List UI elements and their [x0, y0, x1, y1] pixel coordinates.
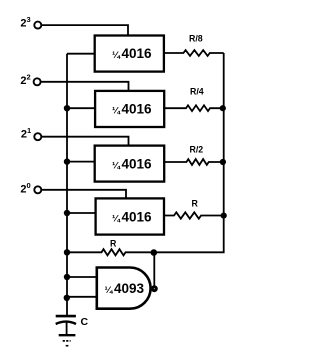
- node junction dot feedback to output: [151, 249, 158, 256]
- node junction dot R/4 to right bus: [220, 105, 226, 111]
- switch U2 (1/4 4016): [95, 91, 164, 127]
- node junction dot gate input 2: [64, 295, 70, 301]
- wire bus stub to U3 left: [67, 161, 95, 163]
- resistor R (stage 4): [164, 212, 224, 218]
- node junction dot R to right bus: [221, 213, 227, 219]
- ground: [59, 334, 76, 336]
- wire gate input 1: [67, 276, 96, 278]
- svg-text:R: R: [110, 239, 117, 249]
- node 2^1 input terminal: [34, 133, 41, 140]
- svg-text:R: R: [192, 199, 199, 209]
- wire 2^1 to box U3 control: [42, 137, 129, 145]
- wire gate input 2: [67, 296, 96, 298]
- node junction dot U4 stub: [64, 210, 70, 216]
- wire right bus vertical: [154, 53, 224, 252]
- wire capacitor to ground: [66, 323, 68, 335]
- switch U1 (1/4 4016): [95, 36, 164, 72]
- node junction dot U3 stub: [64, 158, 70, 164]
- node output bubble U5: [152, 287, 156, 291]
- switch U3 (1/4 4016): [95, 146, 165, 182]
- node junction dot U2 stub: [64, 105, 70, 111]
- resistor R feedback: [67, 249, 154, 255]
- switch U4 (1/4 4016): [96, 198, 164, 234]
- node 2^3 input terminal: [34, 22, 41, 29]
- wire output up to feedback node: [153, 253, 155, 287]
- svg-text:R/2: R/2: [190, 145, 204, 155]
- wire left bus vertical: [66, 54, 68, 315]
- node junction dot feedback to left bus: [64, 249, 70, 255]
- svg-text:R/8: R/8: [189, 34, 203, 44]
- wire 2^3 to box U1 control: [42, 25, 128, 34]
- node 2^0 input terminal: [34, 186, 41, 193]
- resistor R/8: [164, 50, 224, 56]
- node junction dot gate input 1: [64, 274, 70, 280]
- wire bus stub to U1 left: [67, 53, 95, 55]
- wire 2^2 to box U2 control: [41, 82, 129, 90]
- resistor R/4: [164, 105, 224, 111]
- op-amp gate U5 (1/4 4093 NAND) body: [97, 268, 151, 309]
- svg-text:C: C: [81, 316, 89, 328]
- node junction dot R/2 to right bus: [220, 159, 226, 165]
- node 2^2 input terminal: [34, 78, 41, 85]
- capacitor C bottom plate: [56, 322, 76, 324]
- wire bus stub to U2 left: [67, 107, 95, 109]
- wire bus stub to U4 left: [67, 212, 96, 214]
- wire 2^0 to box U4 control: [42, 190, 126, 198]
- svg-text:R/4: R/4: [190, 86, 204, 96]
- resistor R/2: [164, 159, 224, 165]
- capacitor C top plate: [56, 315, 76, 318]
